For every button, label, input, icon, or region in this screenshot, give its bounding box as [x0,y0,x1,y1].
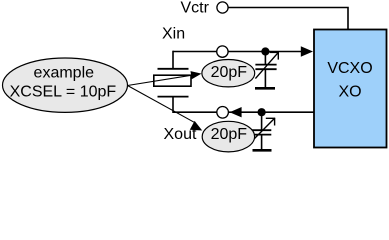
svg-text:example: example [34,65,95,82]
ground (bottom capacitor) [253,149,272,152]
wire Xout (bottom net, crystal to VCXO) [173,98,314,114]
value callout C1: 20pF [202,59,255,86]
wire Xin (top net, crystal to VCXO) [173,51,302,69]
terminal Vctr [217,2,228,13]
trimmer capacitor C1 (top 20pF) [255,52,278,88]
svg-text:Xin: Xin [162,26,185,43]
value callout C2: 20pF [202,121,254,152]
callout leader arrow to C2 [128,86,203,131]
crystal Y1 [154,69,191,97]
svg-text:VCXO: VCXO [327,60,372,77]
svg-text:20pF: 20pF [211,64,248,81]
terminal Xin [217,46,228,57]
VCXO box U1 [314,30,387,148]
svg-text:20pF: 20pF [211,126,248,143]
ground (top capacitor) [255,87,275,90]
arrow toward Xout terminal (signal out of VCXO) [230,107,242,117]
svg-text:Vctr: Vctr [181,0,210,17]
junction dot bottom node [258,108,266,116]
svg-text:XO: XO [338,84,361,101]
svg-text:XCSEL = 10pF: XCSEL = 10pF [10,84,117,101]
terminal Xout [217,107,229,119]
trimmer capacitor C2 (bottom 20pF) [252,112,276,150]
junction dot top node [261,47,269,55]
wire Vctr to VCXO box [228,8,348,30]
callout leader arrow to C1 [128,71,202,85]
callout balloon: example XCSEL = 10pF [3,58,128,112]
arrow into VCXO (Xin signal) [301,46,313,56]
